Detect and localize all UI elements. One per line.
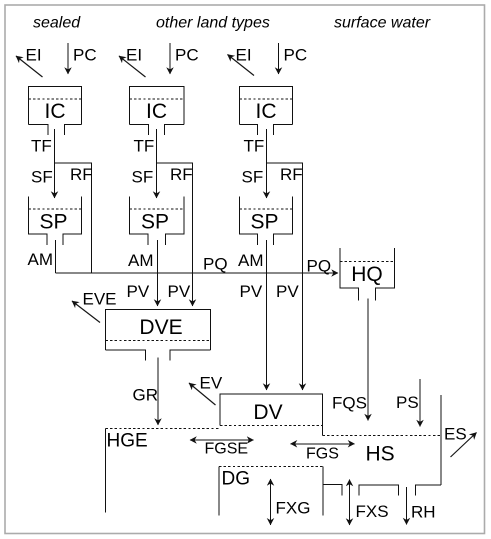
svg-text:DG: DG [222,469,251,490]
storage IC tank (column 3) [240,87,293,136]
storage DV box [220,394,323,436]
svg-text:PC: PC [73,46,97,65]
svg-text:TF: TF [31,137,52,156]
HS right wall [440,395,442,485]
storage DVE box [106,310,211,361]
wire RF branch to PV arrow into DVE (column 2) [157,163,193,306]
svg-text:HS: HS [366,443,395,466]
svg-text:PC: PC [175,46,199,65]
arrow GR [157,358,159,426]
svg-text:SF: SF [242,168,264,187]
HQ water level dashed [340,260,395,262]
svg-text:IC: IC [256,100,277,123]
arrow PS [419,379,421,427]
IC water level dashed (column 3) [240,98,293,100]
svg-text:IC: IC [45,100,66,123]
svg-text:TF: TF [134,137,155,156]
arrow TF throughfall (column 2) [156,129,158,198]
svg-text:PV: PV [276,282,299,301]
svg-text:HQ: HQ [351,263,383,286]
svg-text:PQ: PQ [203,255,228,274]
svg-text:RF: RF [170,165,193,184]
arrow EI (column 3) [228,55,255,76]
svg-text:SP: SP [141,211,169,234]
arrow RH [406,487,408,525]
svg-text:DVE: DVE [139,316,182,339]
svg-text:DV: DV [253,401,282,424]
svg-text:SF: SF [31,168,53,187]
IC water level dashed (column 2) [130,98,185,100]
svg-text:PV: PV [127,282,150,301]
storage HQ tank [340,248,395,301]
storage SP tank (column 1) [29,197,82,246]
double arrow FXS [349,480,351,526]
arrow TF throughfall (column 1) [54,129,56,198]
svg-text:sealed: sealed [33,15,81,32]
svg-text:IC: IC [146,100,167,123]
SP water level dashed (column 2) [130,208,185,210]
wire RF branch (column 1) [55,163,92,273]
svg-text:FGS: FGS [306,446,339,463]
arrow EVE [72,301,100,323]
svg-text:EI: EI [26,46,42,65]
double arrow FGSE [190,439,254,441]
svg-text:PS: PS [396,393,419,412]
svg-text:SF: SF [132,168,154,187]
svg-text:RH: RH [411,503,436,522]
storage IC tank (column 1) [29,87,82,136]
arrow PC (column 2) [169,43,171,74]
svg-text:surface water: surface water [334,15,431,32]
svg-text:EV: EV [200,374,223,393]
wire SP outflow PV arrow into DV (column 3) [266,240,268,390]
svg-text:PV: PV [168,282,191,301]
arrow EV [189,383,216,405]
storage DG box top dashed [219,466,323,468]
HS water level dashed [323,435,442,437]
svg-text:FQS: FQS [332,394,367,413]
wire PQ collector line with arrow into HQ [56,272,339,274]
svg-text:EI: EI [126,46,142,65]
double arrow FGS [291,443,355,445]
svg-text:EVE: EVE [83,290,117,309]
svg-text:TF: TF [244,137,265,156]
svg-text:other land types: other land types [156,15,270,32]
DV bottom dashed [220,425,323,427]
HS bottom outlet middle segment [359,485,399,496]
storage SP tank (column 3) [240,197,293,246]
SP water level dashed (column 3) [240,208,293,210]
arrow EI (column 2) [119,56,146,77]
svg-text:PQ: PQ [307,257,332,276]
SP water level dashed (column 1) [29,208,82,210]
svg-text:FXS: FXS [356,502,389,521]
svg-text:AM: AM [128,251,154,270]
arrow TF throughfall (column 3) [266,129,268,198]
DVE level dashed [106,340,211,342]
arrow ES [451,433,477,458]
HGE left wall [105,429,107,513]
wire SP outflow PV arrow into DVE (column 2) [157,240,159,306]
svg-text:SP: SP [250,211,278,234]
svg-text:RF: RF [70,165,93,184]
wire SP outflow (column 1) [55,240,57,273]
IC water level dashed (column 1) [29,98,82,100]
HS bottom outlet right segment [416,485,442,496]
svg-text:FXG: FXG [276,499,311,518]
svg-text:EI: EI [236,46,252,65]
svg-text:AM: AM [28,250,54,269]
double arrow FXG [270,479,272,525]
HS bottom outlet left segment [323,485,342,496]
arrow EI (column 1) [16,56,43,77]
storage IC tank (column 2) [130,87,185,136]
svg-text:GR: GR [133,386,159,405]
svg-text:RF: RF [280,165,303,184]
wire HQ outflow FQS arrow [367,299,369,421]
svg-text:HGE: HGE [107,431,148,452]
arrow PC (column 3) [278,43,280,74]
HGE groundwater dashed level [106,428,219,430]
svg-text:PC: PC [284,46,308,65]
svg-text:AM: AM [238,251,264,270]
arrow PC (column 1) [67,43,69,74]
wire RF branch to PV arrow into DV (column 3) [267,163,303,390]
DG left wall [218,467,220,516]
storage SP tank (column 2) [130,197,185,246]
svg-text:FGSE: FGSE [205,441,249,458]
svg-text:PV: PV [240,282,263,301]
svg-text:ES: ES [444,425,467,444]
svg-text:SP: SP [39,211,67,234]
DG right wall [322,467,324,516]
